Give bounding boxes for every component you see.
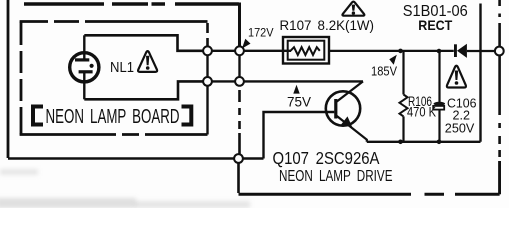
neon lamp NL1 envelope circle xyxy=(70,53,99,82)
capacitor C106 bottom plate xyxy=(433,106,444,110)
connector pin (239.5,81.4) xyxy=(235,77,244,86)
arrow for 75V pointing up to net xyxy=(293,85,299,94)
neon lamp NL1 upper electrode xyxy=(75,58,89,61)
arrow for 185V pointing to node xyxy=(389,55,397,65)
wire: right dash-dot vertical x=499.6 xyxy=(498,0,501,193)
wire: diode to right connector xyxy=(467,50,495,52)
capacitor C106 top plate xyxy=(434,102,446,106)
wire: second net from connector to collector corner xyxy=(244,80,363,82)
wire: R106 top lead xyxy=(402,51,404,95)
transistor Q107 emitter lead xyxy=(337,116,367,142)
wire: bottom dash-dot rail y=194.3 xyxy=(239,193,500,196)
wire: vertical between connectors at x=207.5 xyxy=(206,55,208,77)
label bracket right of NEON LAMP BOARD xyxy=(182,107,192,125)
scan noise smudges xyxy=(0,169,250,208)
wire: second net between connectors xyxy=(212,80,235,82)
resistor R107 zigzag xyxy=(291,47,320,55)
transistor Q107 circle xyxy=(326,91,360,125)
connector pin (238.5,158.5) xyxy=(234,154,243,163)
svg-text:185V: 185V xyxy=(371,64,397,79)
diode S1B01-06 triangle xyxy=(457,44,467,58)
warning triangle above R107 (clipped at top) xyxy=(342,2,364,16)
wire: lamp top wire to step xyxy=(84,35,203,51)
svg-text:75V: 75V xyxy=(287,94,311,109)
resistor R106 zigzag xyxy=(400,95,408,117)
neon lamp NL1 gas dot xyxy=(90,64,94,68)
wire: from bottom connector down to bottom rail xyxy=(237,163,240,193)
wire: emitter net to right vertical xyxy=(367,141,481,143)
wire: lamp bottom wire to step xyxy=(84,81,203,99)
label bracket left of NEON LAMP BOARD xyxy=(33,107,43,125)
wire: dash-dot vertical x=239.5 down to bottom connector xyxy=(238,90,241,154)
connector pin (239.5,50.8) xyxy=(235,46,244,55)
wire: vertical x=239.5 between connectors xyxy=(238,55,240,77)
wire: R106 bottom lead xyxy=(402,116,404,141)
wire: net from R107 to diode xyxy=(329,50,454,52)
connector pin (499.3,51) xyxy=(495,47,504,56)
wire: right solid vertical x=480.5 xyxy=(479,4,481,142)
transistor Q107 base bar xyxy=(334,99,337,119)
transistor Q107 collector lead xyxy=(337,81,364,101)
wire: base wire xyxy=(264,112,335,159)
svg-text:NL1: NL1 xyxy=(110,59,134,76)
wire: dashed drop from board box corner to connector xyxy=(206,23,209,46)
svg-text:NEON LAMP DRIVE: NEON LAMP DRIVE xyxy=(279,168,393,185)
svg-text:470 K: 470 K xyxy=(407,104,436,119)
arrow for 172V pointing to node xyxy=(242,39,251,49)
wire: outer frame left vertical xyxy=(7,0,10,158)
wire: C106 bottom lead xyxy=(438,110,440,142)
junction dot C106 bottom xyxy=(437,140,442,145)
svg-text:172V: 172V xyxy=(248,25,274,39)
wire: vertical x=239.5 from top frame corner down xyxy=(238,3,241,47)
svg-text:RECT: RECT xyxy=(418,17,452,33)
transistor Q107 emitter arrow xyxy=(341,116,352,127)
warning triangle near NL1 xyxy=(138,51,157,72)
neon lamp board dashed box top edge xyxy=(20,20,208,23)
resistor R107 inner box xyxy=(288,41,325,60)
warning triangle near C106 xyxy=(447,66,466,88)
svg-text:NEON LAMP BOARD: NEON LAMP BOARD xyxy=(46,106,180,128)
neon lamp board dashed box left edge xyxy=(20,22,23,135)
neon lamp NL1 top lead xyxy=(83,35,85,60)
wire: bottom right corner vertical stub xyxy=(498,161,501,194)
wire: outer frame top dashed horizontal xyxy=(24,2,239,6)
resistor R107 outer box xyxy=(283,37,329,64)
wire: top net from connector to R107 xyxy=(244,50,291,52)
neon lamp board dashed box bottom edge xyxy=(20,133,208,136)
wire: bottom return wire y=158.5 xyxy=(8,157,234,160)
junction dot R106 top xyxy=(398,49,403,54)
wire: from bottom connector to base riser xyxy=(243,157,264,159)
svg-text:250V: 250V xyxy=(445,120,475,135)
wire: C106 top lead xyxy=(438,51,440,102)
junction dot R106 bottom xyxy=(398,140,403,145)
wire: vertical from connector down to board box bottom at x=207.5 xyxy=(206,86,208,135)
svg-text:R107 8.2K(1W): R107 8.2K(1W) xyxy=(280,17,375,33)
junction dot C106 top xyxy=(437,49,442,54)
connector pin (207.5,50.8) xyxy=(203,46,212,55)
connector pin (207.5,81.4) xyxy=(203,77,212,86)
neon lamp NL1 lower electrode xyxy=(79,70,93,73)
neon lamp NL1 bottom lead xyxy=(83,72,85,99)
svg-text:Q107 2SC926A: Q107 2SC926A xyxy=(273,148,380,168)
diode S1B01-06 cathode bar xyxy=(454,44,457,57)
wire: top net between connectors xyxy=(212,50,235,52)
